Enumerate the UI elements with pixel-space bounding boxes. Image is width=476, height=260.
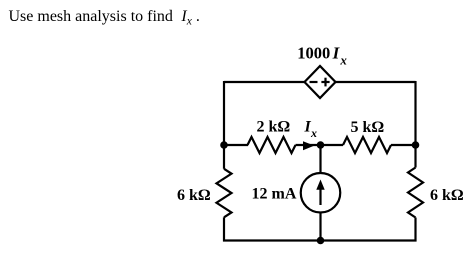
svg-text:x: x (339, 53, 347, 68)
node right junction (412, 141, 420, 149)
label 2 kOhm (257, 119, 291, 136)
svg-text:I: I (332, 44, 341, 63)
wire right vertical to resistor (414, 145, 416, 168)
current arrow Ix (303, 141, 314, 150)
svg-text:1000: 1000 (297, 44, 330, 63)
wire 5k to right node (391, 144, 416, 146)
svg-text:Use mesh analysis to find Ix .: Use mesh analysis to find Ix . (9, 8, 200, 28)
plus sign inside source (321, 78, 329, 87)
svg-text:x: x (310, 126, 317, 140)
resistor R3 6 kOhm left (217, 169, 232, 218)
resistor R1 2 kOhm (248, 137, 296, 153)
wire current source bottom (319, 213, 321, 241)
svg-text:2 kΩ: 2 kΩ (257, 119, 291, 136)
svg-text:6 kΩ: 6 kΩ (430, 187, 464, 204)
title text (9, 8, 200, 28)
current source I1 12 mA (301, 173, 341, 213)
node left junction (220, 141, 228, 149)
wire top-right segment (336, 81, 416, 83)
wire current source top (319, 145, 321, 173)
wire right vertical upper (414, 81, 416, 145)
svg-text:6 kΩ: 6 kΩ (177, 187, 211, 204)
resistor R4 6 kOhm right (408, 168, 423, 218)
label Ix (304, 119, 318, 141)
resistor R2 5 kOhm (343, 137, 391, 153)
wire left vertical lower (223, 217, 225, 241)
wire middle node to 5k (321, 144, 344, 146)
wire middle left (224, 144, 248, 146)
minus sign inside source (310, 81, 318, 83)
wire bottom (223, 239, 417, 241)
wire right vertical lower (414, 218, 416, 242)
label 12 mA (252, 186, 297, 203)
wire top-left segment (224, 81, 305, 83)
label 1000 Ix (297, 44, 347, 68)
svg-text:5 kΩ: 5 kΩ (351, 119, 385, 136)
svg-text:12 mA: 12 mA (252, 186, 297, 203)
dependent source U1 diamond (305, 66, 336, 98)
node middle junction (317, 141, 325, 149)
label 6 kOhm left (177, 187, 211, 204)
label 5 kOhm (351, 119, 385, 136)
wire left vertical upper (223, 81, 225, 145)
node bottom junction (317, 237, 325, 245)
wire left vertical to resistor (223, 145, 225, 169)
wire middle arrow segment (296, 144, 319, 146)
label 6 kOhm right (430, 187, 464, 204)
